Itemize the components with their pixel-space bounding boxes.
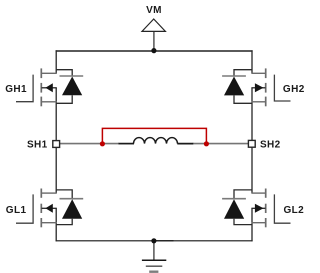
svg-text:GL1: GL1: [6, 205, 27, 216]
svg-text:SH1: SH1: [27, 139, 48, 150]
svg-text:VM: VM: [146, 5, 162, 16]
svg-text:SH2: SH2: [260, 139, 281, 150]
svg-text:GL2: GL2: [283, 205, 304, 216]
svg-text:GH2: GH2: [283, 84, 305, 95]
svg-text:GH1: GH1: [5, 84, 27, 95]
